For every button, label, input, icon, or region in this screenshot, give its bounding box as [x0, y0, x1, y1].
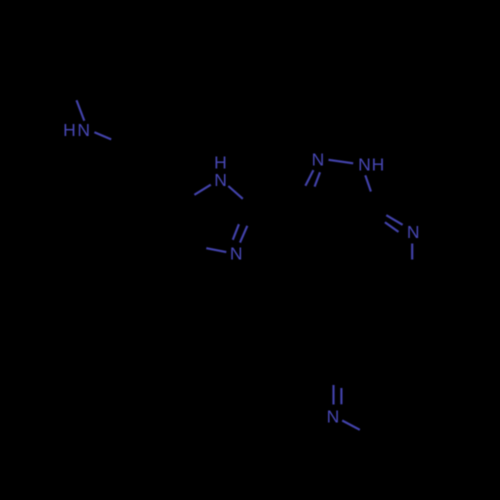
- svg-text:N: N: [358, 154, 371, 174]
- bond: pyrazole N2=C3 double bond outer line (N half): [305, 170, 313, 186]
- bond: imidazole N1(H)-C2 half-bond: [228, 186, 243, 199]
- bond: pyrazole N2=C3 double bond inner line (N half): [315, 172, 320, 186]
- bond: bottom pyridine C4'=N double bond inner line (N half): [340, 388, 342, 404]
- svg-text:H: H: [372, 154, 385, 174]
- svg-text:H: H: [63, 120, 76, 140]
- bond: pyrazole N1(H)-C7a half-bond: [365, 175, 371, 191]
- bond: methylamine N-CH3 (upper half-bond): [77, 100, 85, 121]
- svg-text:N: N: [407, 222, 420, 242]
- bond: imidazole N3-C4 half-bond: [206, 248, 226, 252]
- bond: pyrazole N2-N1(H): [329, 160, 354, 164]
- bond: bottom pyridine C4'=N double bond outer line (N half): [332, 385, 334, 405]
- bond: imidazole C2=N3 double bond outer line (N half): [233, 224, 239, 240]
- svg-text:N: N: [214, 170, 227, 190]
- bond: imidazole N1(H)-C5 half-bond: [194, 185, 210, 195]
- svg-text:N: N: [230, 243, 243, 263]
- bond: methylamine N-CH3 (lower right half-bond): [94, 132, 111, 139]
- svg-text:N: N: [77, 120, 90, 140]
- bond: pyridine C7a=N7 double bond inner line (N half): [385, 222, 399, 232]
- svg-text:N: N: [312, 150, 325, 170]
- bond: imidazole C2=N3 double bond inner line (N half): [240, 226, 247, 243]
- bond: bottom pyridine N-C2' half-bond: [342, 421, 360, 430]
- bond: pyridine N7-C6 half-bond: [411, 244, 413, 260]
- svg-text:N: N: [327, 407, 340, 427]
- bond: pyridine C7a=N7 double bond outer line (N half): [386, 215, 402, 225]
